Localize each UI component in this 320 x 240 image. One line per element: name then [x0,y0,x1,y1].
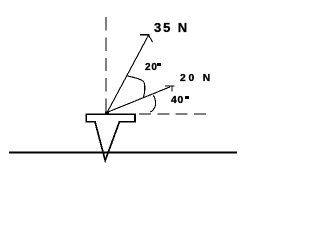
vector F1 35 N arrowhead [140,35,152,43]
node origin (stake top where forces act) [105,112,109,115]
arc 20 degrees between the two force vectors [127,76,144,97]
stake outline (head and tapered body) [86,114,135,160]
wire vertical dashed reference line [105,17,107,112]
vector F2 20 N arrow shaft [107,87,170,112]
label 20 degrees [145,63,158,73]
label 20 N [180,74,213,84]
label 35 N [154,21,189,34]
wire horizontal dashed reference line [139,113,207,115]
arc 40 degrees between 20 N vector and horizontal [150,95,155,112]
label 40 degrees [171,96,184,106]
vector F2 20 N arrowhead [165,86,175,92]
ground [9,152,237,154]
degree square for 40 [185,96,189,99]
vector F1 35 N arrow shaft [107,35,148,112]
degree square for 20 [157,63,161,66]
